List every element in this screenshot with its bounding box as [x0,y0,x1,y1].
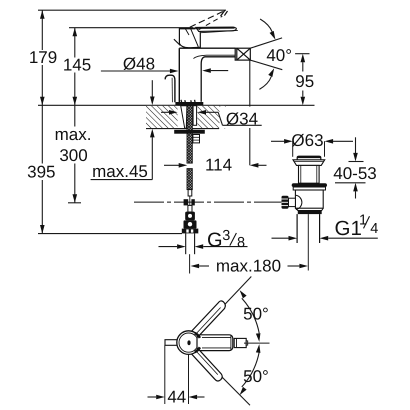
aerator block with cross [235,48,250,60]
dimension line 179/395 vertical [41,10,43,233]
dim O63 [271,140,284,142]
counter hatched section left of hole [146,106,178,128]
pop-up pull rod hook at body rear [165,75,175,102]
svg-text:G1: G1 [335,217,362,240]
spout arm (plan) [197,335,233,351]
max45 bottom arrow and leader [151,137,153,179]
pop-up waste: body [295,190,323,208]
svg-text:Ø63: Ø63 [291,131,323,150]
svg-text:max.45: max.45 [92,162,148,181]
pop-up waste: collar [293,187,325,190]
dim G1 1/4 [272,237,289,239]
pull rod tab (plan) [165,340,177,346]
handle knuckle [179,28,200,48]
counter hatched section right of hole [197,106,226,128]
dim 44 [148,396,157,398]
counter top line [38,104,315,106]
handle lever up position (plan) [192,301,225,337]
dim 40-53 [349,161,364,163]
pop-up waste: side knob [282,196,289,209]
spout bottom outline and body right edge [201,57,235,102]
arrows 145/max300 [73,28,78,37]
dim Ø34 hole arrows [161,111,169,113]
svg-text:40-53: 40-53 [333,164,376,183]
G3/8 valve body [185,212,195,221]
svg-text:Ø34: Ø34 [226,110,258,129]
dimension line 145/max300 vertical [68,28,81,203]
svg-text:44: 44 [167,388,186,407]
top extension line (raised lever height) [38,9,226,11]
svg-text:50°: 50° [243,367,269,386]
base ring ticks [181,100,195,102]
hose connector at centre line [184,199,189,205]
pop-up waste: tailpipe [296,214,298,243]
svg-text:G: G [207,229,223,251]
spout inner line [193,55,235,58]
dim 40 degree rays [250,38,282,48]
handle lever down position (plan) [191,348,222,381]
dim 114 [164,164,179,166]
svg-text:95: 95 [295,72,314,91]
mounting flange under counter [174,130,205,134]
faucet body circle (plan) [177,331,201,355]
pop-up waste: top flange [293,160,325,166]
faucet axis extension line [189,254,191,273]
pop-up waste: o-ring seal [292,183,327,187]
dash-dot centre line to waste [134,201,282,203]
dim 95 vertical [295,53,309,55]
pop-up waste: neck [299,165,320,183]
aerator (plan) [234,338,246,347]
arrows 179/395 [40,10,45,19]
50 deg ray bottom [198,353,250,406]
counter bottom line [146,128,219,130]
svg-text:40°: 40° [266,46,292,65]
svg-text:179: 179 [29,48,57,67]
svg-text:8: 8 [237,235,245,251]
svg-text:1: 1 [359,213,367,229]
threaded rod through counter (braided) [187,106,192,163]
dim G3/8 arrows [159,246,178,248]
pop-up waste: cap [297,156,321,160]
svg-text:300: 300 [59,146,87,165]
svg-text:145: 145 [63,56,91,75]
G3/8 nut [182,229,199,234]
handle lever (horizontal) [196,27,236,31]
svg-text:50°: 50° [243,305,269,324]
dim max.180 [191,264,200,269]
50 deg ray top [198,277,252,334]
G3/8 threaded tails [185,233,187,254]
aerator extension line down to 114 dim [249,60,251,165]
svg-text:4: 4 [370,221,378,237]
faucet top / spout top line [179,47,235,49]
max45 top arrow (counter thickness) [151,80,153,97]
label Ø34 with white box [220,107,264,128]
svg-text:max.: max. [55,125,92,144]
pop-up waste: bottom step [295,208,323,210]
mounting wedge in hole [181,106,187,129]
base plate [175,102,203,106]
50 deg arc bottom [242,352,259,387]
dim 44 extension lines (under drawing) [164,345,166,404]
bottom extension line (395 end / hose end) [38,233,182,235]
svg-text:114: 114 [205,155,232,174]
svg-text:max.180: max.180 [216,256,281,275]
raised handle dashed [190,10,228,29]
rod lower stub [188,190,192,196]
centre line tick at faucet axis [189,196,191,208]
40 degree arc arrows [260,19,272,32]
svg-text:3: 3 [222,228,230,244]
svg-text:395: 395 [27,163,55,182]
faucet body outline [178,48,180,102]
hose nipple block [193,135,200,143]
extension line lever top (145) [69,27,193,29]
braided rod lower segment [187,169,192,190]
white spacer bar in hole [193,106,197,126]
50 deg arc top [242,298,259,333]
aerator axis line [244,342,270,344]
connector stub below [188,205,192,212]
waste axis line [307,214,309,270]
